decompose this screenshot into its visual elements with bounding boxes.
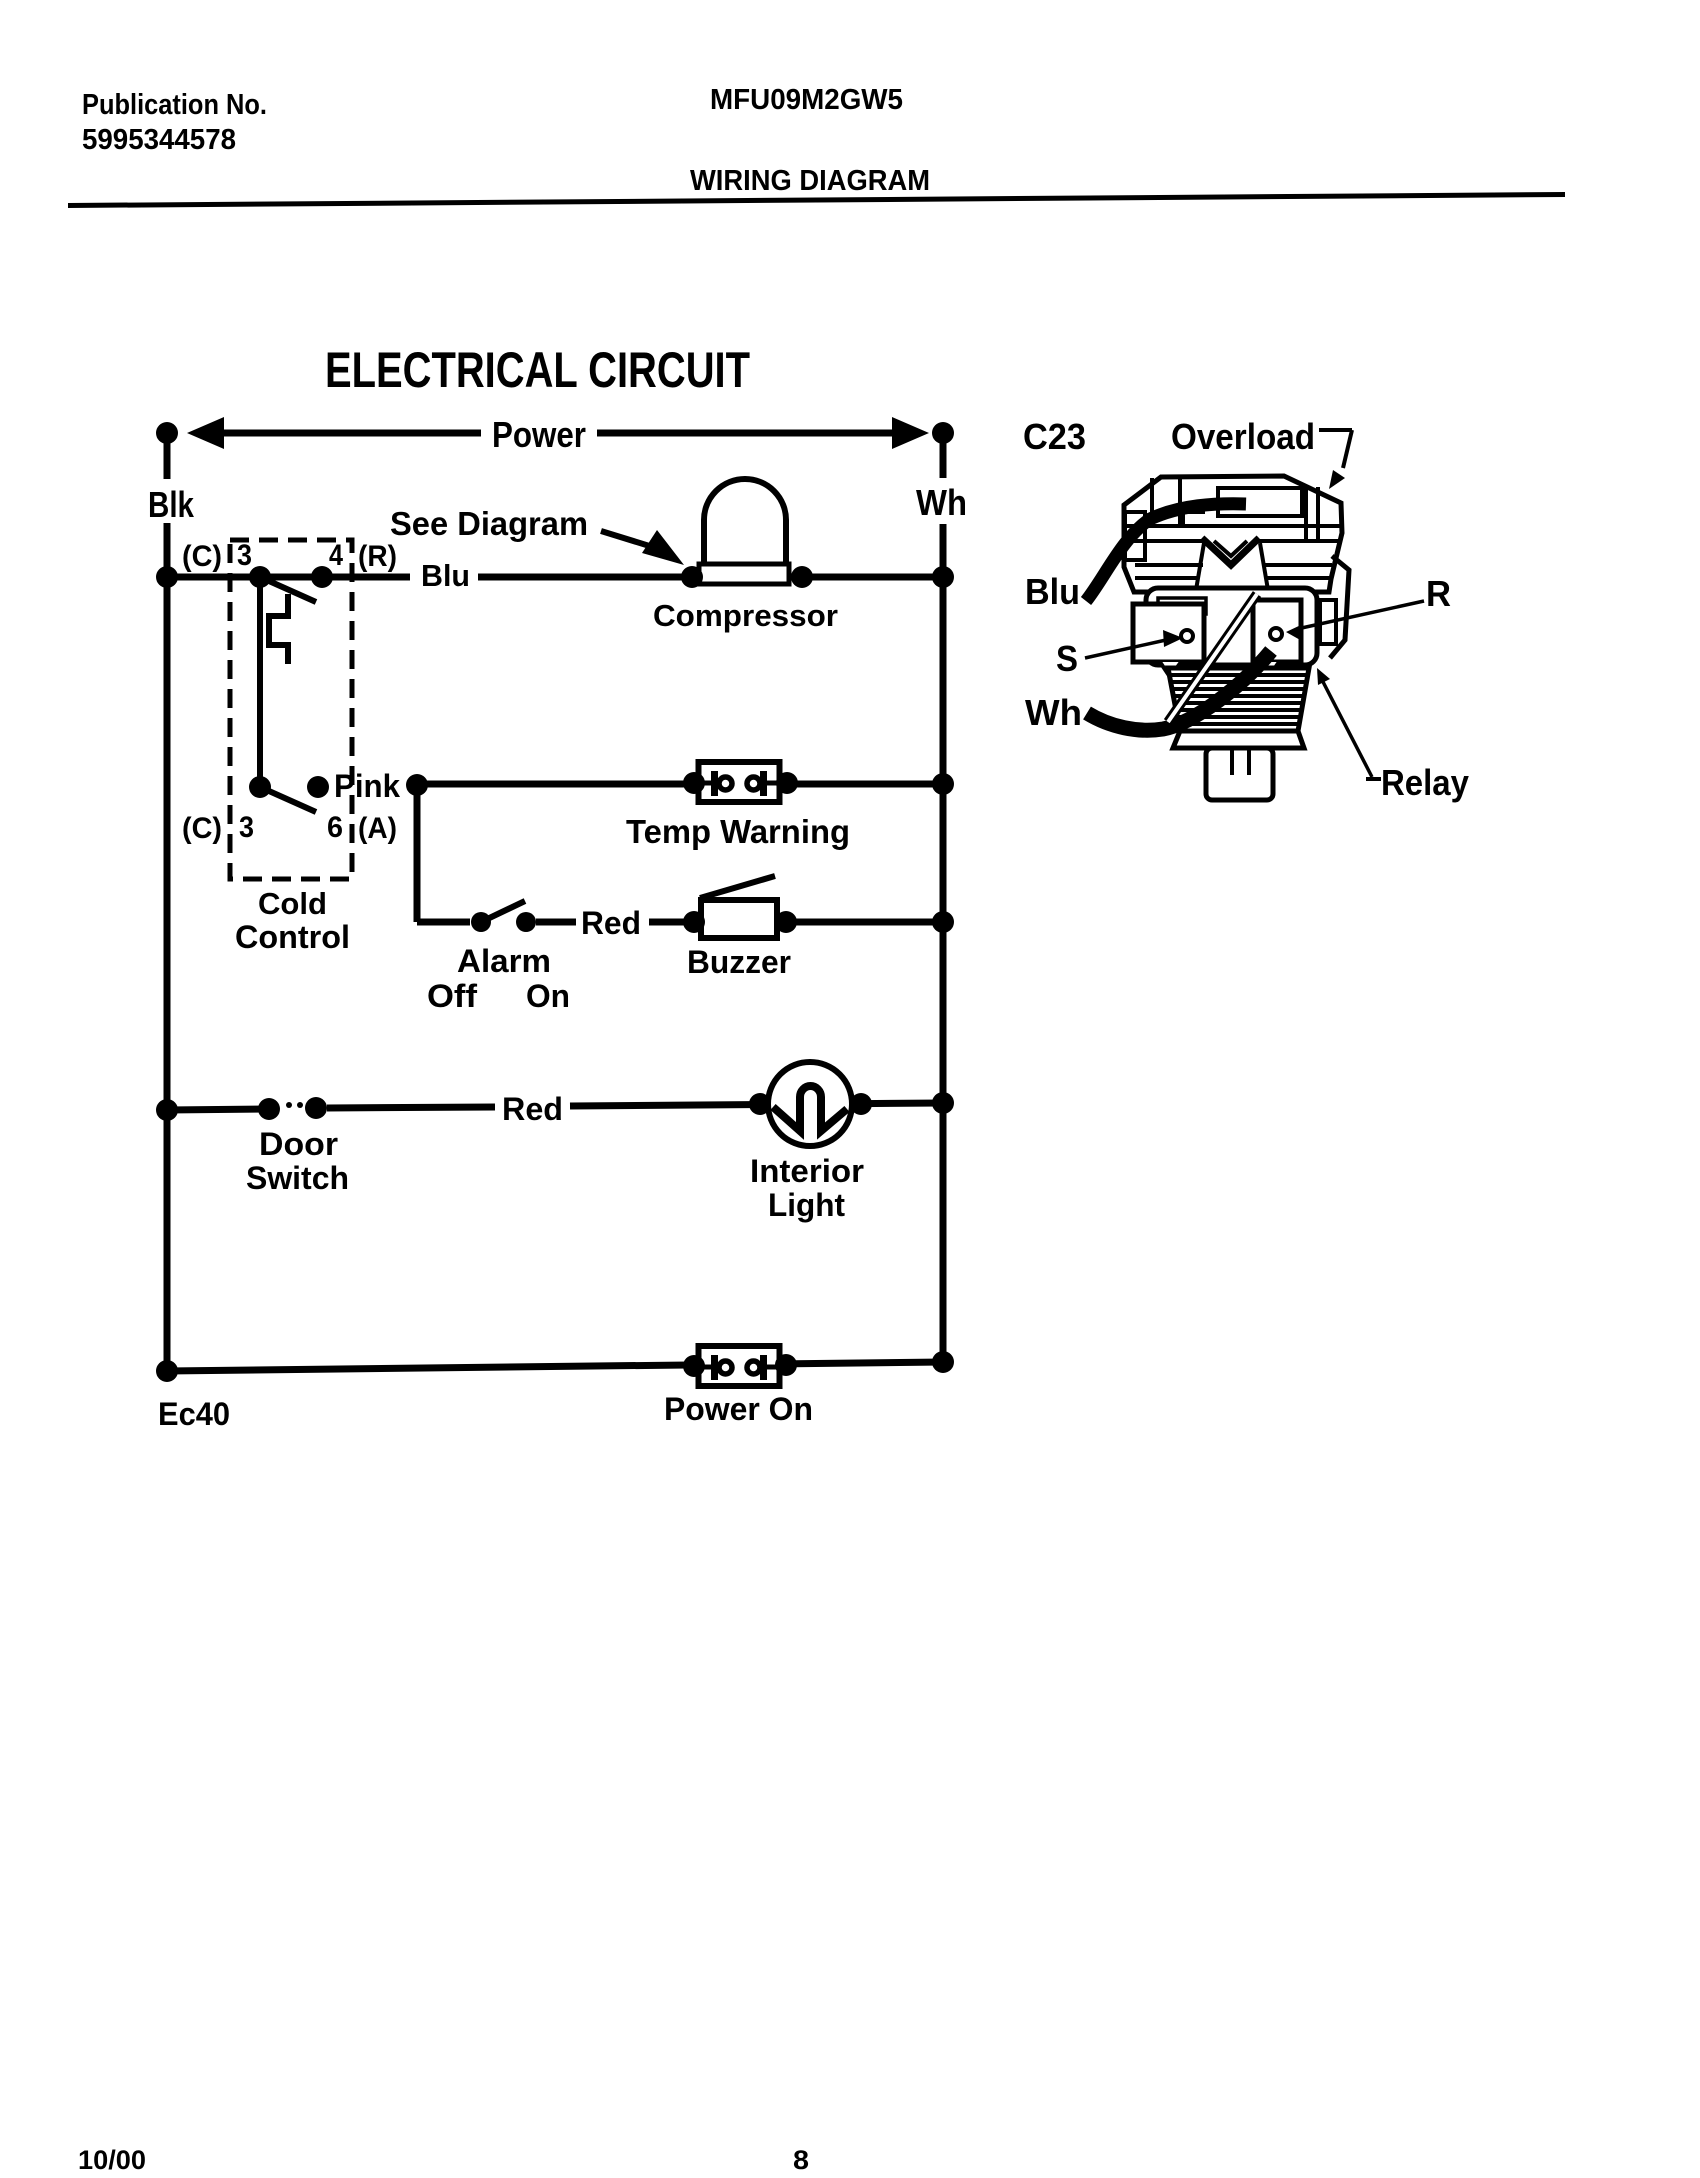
svg-text:Red: Red [502, 1091, 563, 1127]
svg-text:Relay: Relay [1381, 762, 1469, 803]
svg-text:3: 3 [237, 539, 252, 572]
svg-text:Wh: Wh [916, 482, 967, 523]
svg-text:Compressor: Compressor [653, 598, 838, 633]
svg-text:3: 3 [239, 811, 254, 844]
svg-text:Power On: Power On [664, 1391, 813, 1427]
svg-text:Control: Control [235, 919, 350, 955]
svg-text:Off: Off [427, 978, 477, 1014]
svg-text:Interior: Interior [750, 1153, 864, 1189]
svg-text:(R): (R) [358, 540, 397, 573]
svg-text:6: 6 [327, 811, 343, 844]
svg-text:Red: Red [581, 905, 641, 941]
svg-text:Light: Light [768, 1187, 845, 1223]
svg-text:Overload: Overload [1171, 416, 1315, 457]
svg-text:Power: Power [492, 414, 586, 455]
svg-text:4: 4 [329, 539, 343, 572]
svg-text:Blu: Blu [1025, 571, 1080, 612]
svg-text:S: S [1056, 638, 1078, 679]
svg-text:WIRING DIAGRAM: WIRING DIAGRAM [690, 165, 930, 197]
svg-text:Ec40: Ec40 [158, 1396, 230, 1432]
svg-text:On: On [526, 978, 570, 1014]
svg-text:(C): (C) [182, 540, 222, 573]
svg-text:R: R [1426, 573, 1451, 614]
svg-text:Cold: Cold [258, 886, 327, 921]
svg-text:8: 8 [793, 2145, 809, 2175]
svg-text:C23: C23 [1023, 416, 1086, 457]
svg-text:ELECTRICAL CIRCUIT: ELECTRICAL CIRCUIT [325, 342, 750, 398]
svg-text:(A): (A) [358, 812, 397, 845]
svg-text:See Diagram: See Diagram [390, 505, 588, 542]
svg-text:Switch: Switch [246, 1160, 349, 1196]
svg-text:Publication No.: Publication No. [82, 89, 267, 121]
svg-text:Alarm: Alarm [457, 943, 551, 979]
svg-text:Blk: Blk [148, 484, 195, 525]
svg-text:(C): (C) [182, 812, 222, 845]
svg-text:Pink: Pink [334, 768, 400, 804]
svg-text:Blu: Blu [421, 558, 470, 593]
svg-text:Buzzer: Buzzer [687, 944, 791, 980]
svg-text:Temp Warning: Temp Warning [626, 813, 850, 850]
svg-text:Wh: Wh [1025, 692, 1082, 733]
svg-text:Door: Door [259, 1126, 338, 1162]
svg-text:5995344578: 5995344578 [82, 124, 236, 156]
svg-text:MFU09M2GW5: MFU09M2GW5 [710, 84, 903, 116]
svg-text:10/00: 10/00 [78, 2145, 146, 2175]
